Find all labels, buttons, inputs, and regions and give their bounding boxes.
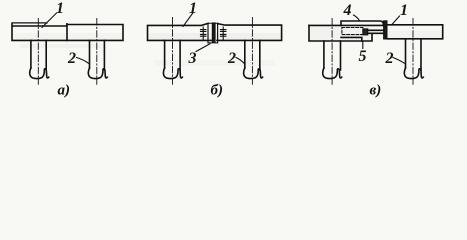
leader label 3 b: [196, 44, 210, 52]
beam a right board rect: [67, 25, 123, 41]
post a-right walls: [90, 40, 105, 70]
flange plate left b outer edge: [207, 23, 209, 43]
svg-text:в): в): [370, 83, 382, 99]
leader label 4 v: [354, 15, 360, 21]
neck lines: [368, 30, 384, 33]
post b-left break curl: [163, 68, 182, 79]
post v-left break curl: [323, 68, 342, 79]
svg-text:4: 4: [343, 2, 352, 19]
svg-text:а): а): [58, 83, 71, 99]
post a-left break curl: [30, 68, 49, 79]
svg-text:2: 2: [227, 50, 236, 67]
svg-text:2: 2: [67, 50, 76, 67]
centerline right post b: [251, 18, 253, 85]
leader label 2 v: [393, 58, 405, 64]
post v-left walls: [324, 41, 341, 70]
beam a thin top lap line: [12, 22, 47, 24]
leader label 5 v: [362, 42, 364, 49]
post a-right break curl: [88, 68, 107, 79]
centerline left post b: [172, 18, 174, 85]
faint scan-noise tints: [148, 33, 281, 41]
post v-right walls: [406, 39, 422, 70]
post a-left walls: [31, 40, 46, 70]
beam b left half: [148, 23, 213, 40]
svg-text:2: 2: [385, 50, 394, 67]
post v-right break curl: [404, 68, 423, 79]
sleeve item 4: [341, 21, 383, 25]
leader label 1 v: [392, 16, 400, 25]
beam v left edge and bottom: [309, 25, 372, 41]
flange bottom edges b: [208, 42, 218, 44]
leader label 2 a: [77, 58, 90, 64]
flange top edges b: [208, 22, 218, 24]
centerline left post a: [37, 19, 39, 85]
sleeve bottom lip: [341, 37, 362, 41]
centerline right post a: [96, 19, 98, 85]
post b-left walls: [165, 40, 181, 70]
right beam end flange v: [384, 21, 387, 39]
flange butt joint dark core: [212, 23, 215, 43]
flange plate right b outer edge: [217, 24, 219, 43]
tongue cap block: [363, 29, 368, 35]
beam v left top edge: [309, 24, 383, 26]
centerline left post v: [331, 19, 333, 85]
svg-text:1: 1: [56, 0, 64, 17]
leader label 1 a: [42, 13, 57, 28]
beam a left board rect: [12, 23, 67, 40]
svg-text:3: 3: [188, 50, 197, 67]
svg-text:5: 5: [359, 48, 367, 65]
beam v right rect: [387, 25, 442, 39]
bolt left b: [201, 27, 206, 40]
beam b right half: [217, 24, 282, 41]
hidden tongue dashed: [342, 28, 363, 35]
svg-text:б): б): [211, 83, 223, 99]
centerline right post v: [412, 19, 414, 85]
svg-text:1: 1: [400, 2, 408, 19]
leader label 1 b: [183, 13, 193, 27]
post b-right walls: [245, 40, 260, 70]
bolt right b: [221, 27, 226, 40]
svg-text:1: 1: [189, 0, 197, 17]
leader label 2 b: [236, 58, 245, 64]
post b-right break curl: [244, 68, 263, 79]
